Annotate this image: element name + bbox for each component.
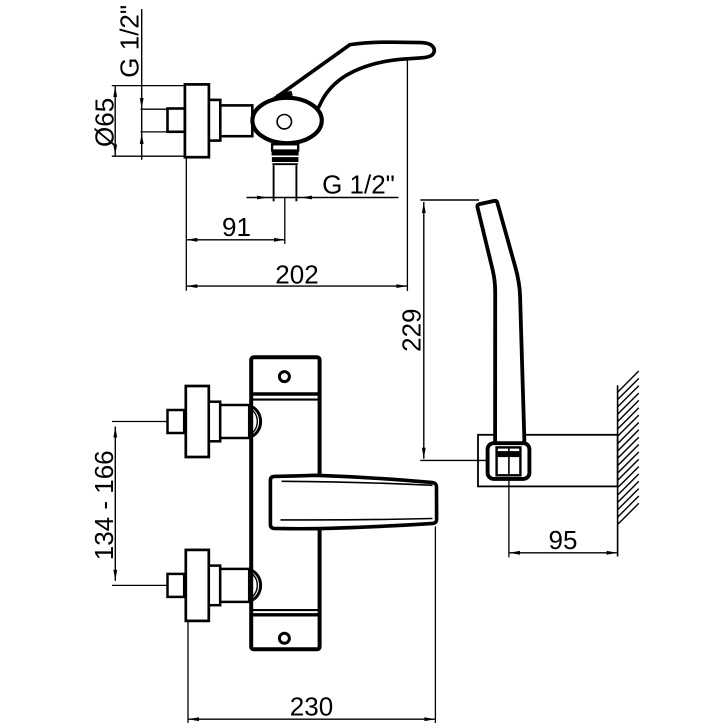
G 1/2 inlet arrows xyxy=(140,98,144,109)
O65 ext lines xyxy=(112,85,186,87)
spout (front view) xyxy=(270,475,436,528)
holder grip inner xyxy=(497,447,521,475)
inlet nipple G1/2 xyxy=(168,109,185,132)
top valve nipple xyxy=(168,410,185,433)
spout inner top line xyxy=(282,481,433,485)
body plate (front view) xyxy=(251,357,319,649)
wall flange (side view) xyxy=(185,84,209,157)
lever tip ext line xyxy=(406,60,408,292)
dim 230 xyxy=(188,718,435,720)
dim 134-166 line xyxy=(114,427,116,581)
dim 230 ext lines xyxy=(187,622,189,724)
plate bottom section line thin xyxy=(251,609,319,611)
bottom valve cylinder xyxy=(220,569,249,602)
dim 134-166 ext lines xyxy=(112,421,168,423)
top valve dome inner arc xyxy=(249,408,258,434)
cartridge screw circle xyxy=(277,115,291,129)
svg-text:202: 202 xyxy=(275,259,318,289)
lever handle xyxy=(264,42,435,115)
svg-text:95: 95 xyxy=(549,525,578,555)
dim 95 ext line xyxy=(508,479,510,557)
dim 229 ext lines xyxy=(420,199,479,201)
plate top section line thin xyxy=(251,399,319,401)
top valve step xyxy=(209,402,220,442)
mounting ring xyxy=(209,100,220,141)
bottom valve dome arc xyxy=(249,570,260,601)
plate top section line thick xyxy=(251,392,319,395)
holder grip outer xyxy=(488,443,530,479)
outlet collar xyxy=(272,144,298,150)
dim 91 xyxy=(186,239,285,241)
plate bottom section line thick xyxy=(251,613,319,616)
shower handle xyxy=(477,201,524,447)
top valve cylinder xyxy=(220,405,249,438)
holder grip center line xyxy=(508,457,510,474)
dim 202 xyxy=(186,285,407,287)
valve body ellipse xyxy=(252,98,321,143)
G 1/2 inlet dim line xyxy=(141,9,143,160)
svg-text:229: 229 xyxy=(397,309,427,352)
outlet center ext line xyxy=(284,198,286,244)
holder arm xyxy=(478,435,618,487)
wall line xyxy=(617,385,619,556)
dim 95 xyxy=(509,552,618,554)
svg-text:134 - 166: 134 - 166 xyxy=(89,450,119,560)
lever hinge tab xyxy=(276,91,293,99)
O65 dim line xyxy=(114,86,116,156)
svg-text:G 1/2": G 1/2" xyxy=(322,170,395,200)
bottom valve dome inner arc xyxy=(249,572,258,598)
bottom valve nipple xyxy=(168,574,185,597)
wall hatching xyxy=(618,371,639,525)
spout inner bottom line xyxy=(281,519,433,520)
outlet pipe right edge xyxy=(295,165,297,201)
svg-text:91: 91 xyxy=(222,212,251,242)
body tube xyxy=(220,105,252,136)
holder grip band xyxy=(498,451,520,457)
holder grip top divider xyxy=(508,448,510,452)
svg-text:230: 230 xyxy=(290,691,333,721)
thread band 3 xyxy=(272,163,297,165)
thread band 2 xyxy=(272,157,299,162)
thread band 1 xyxy=(272,151,299,156)
svg-text:G 1/2": G 1/2" xyxy=(114,5,144,78)
G 1/2 outlet dim line xyxy=(247,197,399,199)
G 1/2 inlet ext lines xyxy=(141,108,168,110)
bottom valve step xyxy=(209,566,220,606)
dim 229 line xyxy=(423,202,425,459)
top valve dome arc xyxy=(249,406,260,437)
outlet pipe left edge xyxy=(273,165,275,201)
top valve flange xyxy=(186,386,209,457)
bottom screw hole xyxy=(279,633,289,643)
left ext line (flange) xyxy=(185,158,187,291)
top screw hole xyxy=(279,372,289,382)
bottom valve flange xyxy=(186,550,209,621)
